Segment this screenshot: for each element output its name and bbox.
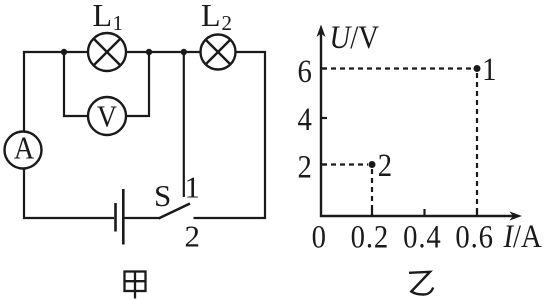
- svg-text:1: 1: [113, 11, 124, 35]
- dashed line horizontal U=2: [322, 163, 368, 165]
- y tick 2: [321, 163, 327, 165]
- voltmeter branch wire right: [126, 52, 149, 116]
- svg-text:L: L: [201, 0, 221, 33]
- y tick 6: [321, 67, 327, 69]
- svg-text:6: 6: [298, 52, 312, 89]
- svg-text:U/V: U/V: [330, 18, 379, 55]
- wire contact 1 vertical: [183, 51, 185, 197]
- wire top: [23, 51, 266, 53]
- wire left: [23, 51, 25, 219]
- point 1: [474, 65, 481, 72]
- x tick 0.2: [371, 209, 373, 216]
- ammeter A: [5, 130, 42, 169]
- lamp L1: [88, 33, 126, 71]
- x tick 0.6: [476, 209, 478, 216]
- node junction left: [61, 49, 67, 55]
- lamp L2: [201, 35, 236, 70]
- svg-text:A: A: [14, 130, 35, 166]
- x-axis: [320, 212, 522, 221]
- wire bottom left: [23, 217, 114, 219]
- svg-text:2: 2: [222, 11, 233, 35]
- x tick 0.4: [423, 209, 425, 216]
- wire right: [264, 51, 266, 219]
- svg-text:V: V: [97, 100, 117, 134]
- svg-text:2: 2: [185, 219, 201, 254]
- svg-text:0: 0: [312, 218, 326, 255]
- svg-text:0.2: 0.2: [351, 218, 389, 255]
- point 2: [369, 161, 376, 168]
- switch S blade: [159, 204, 191, 219]
- svg-text:2: 2: [298, 148, 312, 185]
- y-axis: [317, 25, 326, 218]
- voltmeter V: [88, 97, 126, 135]
- wire contact 2: [194, 217, 267, 219]
- svg-text:1: 1: [185, 170, 201, 205]
- dashed line vertical I=0.2: [371, 169, 373, 215]
- label jia (甲): [125, 272, 146, 299]
- wire battery to switch: [125, 217, 160, 219]
- battery: [116, 189, 124, 245]
- voltmeter branch wire left: [64, 52, 88, 116]
- svg-text:0.6: 0.6: [455, 218, 493, 255]
- svg-text:0.4: 0.4: [403, 218, 441, 255]
- node junction middle: [146, 49, 152, 55]
- label yi (乙): [409, 272, 433, 295]
- svg-text:4: 4: [298, 100, 312, 137]
- dashed line horizontal U=6: [322, 67, 473, 69]
- node junction right: [181, 49, 187, 55]
- svg-text:2: 2: [378, 146, 392, 183]
- svg-text:1: 1: [482, 50, 496, 87]
- svg-text:S: S: [154, 178, 171, 213]
- svg-text:L: L: [93, 0, 113, 33]
- dashed line vertical I=0.6: [476, 73, 478, 215]
- y tick 4: [321, 117, 327, 119]
- svg-text:I/A: I/A: [503, 217, 543, 254]
